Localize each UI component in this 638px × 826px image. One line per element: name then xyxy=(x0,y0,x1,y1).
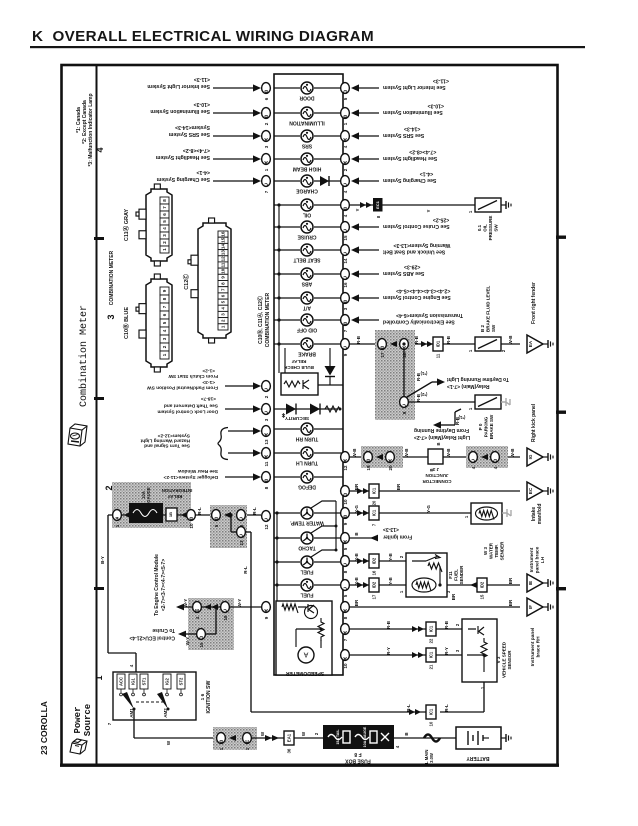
svg-text:Front right fender: Front right fender xyxy=(531,282,537,324)
gauge TURN RH y=429 xyxy=(274,428,300,430)
svg-text:Source: Source xyxy=(83,704,93,736)
svg-text:H: H xyxy=(245,738,249,744)
svg-text:V 3: V 3 xyxy=(496,656,501,663)
svg-text:R-B: R-B xyxy=(444,620,449,629)
row 9C: brake fluid level circuit xyxy=(350,343,475,345)
svg-text:C: C xyxy=(343,227,347,233)
svg-text:WATER TEMP.: WATER TEMP. xyxy=(290,520,324,526)
svg-text:15: 15 xyxy=(199,642,204,648)
svg-text:W-B: W-B xyxy=(404,448,409,458)
gauge lamp SEAT BELT xyxy=(274,249,300,251)
svg-text:B: B xyxy=(214,515,218,521)
svg-text:GAUGE: GAUGE xyxy=(146,487,151,503)
speedometer sub-box xyxy=(276,601,332,675)
water temp sender W3 xyxy=(471,503,502,524)
svg-text:M: M xyxy=(195,607,199,613)
connector pin 5A meter right y=538 xyxy=(341,533,350,544)
svg-text:1: 1 xyxy=(94,675,104,680)
svg-text:16: 16 xyxy=(221,231,226,237)
svg-text:TURN LH: TURN LH xyxy=(296,460,318,466)
row 9B: water temp sender circuit xyxy=(350,512,471,514)
svg-text:W-Y: W-Y xyxy=(237,599,242,608)
connector pin 3B meter right y=298 xyxy=(341,293,350,304)
svg-text:W-Y: W-Y xyxy=(185,637,190,646)
gauge lamp CRUISE xyxy=(274,226,300,228)
svg-text:F11: F11 xyxy=(448,571,453,579)
svg-text:manifold: manifold xyxy=(537,504,543,525)
connector oval 9 on branch xyxy=(400,397,409,408)
reference arrow left: See Headlight System xyxy=(213,158,254,160)
reference arrow right: See Illumination System xyxy=(357,112,379,114)
junction dot lower bus y=562 xyxy=(275,560,278,563)
svg-text:<25-2>: <25-2> xyxy=(433,217,449,223)
svg-text:SW: SW xyxy=(491,324,496,332)
svg-text:To Cruise: To Cruise xyxy=(152,627,175,633)
svg-text:10: 10 xyxy=(429,721,434,726)
connector pin 9B meter right y=513 xyxy=(341,508,350,519)
svg-text:A: A xyxy=(264,159,268,165)
B-Y feed wire from integration relay down xyxy=(107,515,109,653)
reference arrow right: See Charging System xyxy=(357,180,379,182)
connector pin 1B meter right y=113 xyxy=(341,108,350,119)
svg-text:C11Ⓐ GRAY: C11Ⓐ GRAY xyxy=(122,209,130,242)
svg-text:See Cruise Control System: See Cruise Control System xyxy=(383,223,450,229)
reference arrow left: See SRS System xyxy=(213,135,254,137)
junction connector EC1 xyxy=(373,198,383,212)
svg-text:R-L: R-L xyxy=(444,704,449,712)
svg-text:A: A xyxy=(343,159,347,165)
svg-text:BULB CHECK: BULB CHECK xyxy=(283,365,313,370)
gauge FUEL y=562 xyxy=(274,561,300,563)
internal diagonal link from tacho gauge xyxy=(311,526,336,533)
svg-text:12: 12 xyxy=(221,256,226,262)
bulb check relay feed wire from BRAKE row xyxy=(284,348,286,373)
connector pin 10A meter right y=655 xyxy=(341,650,350,661)
svg-text:P 0: P 0 xyxy=(478,423,483,430)
svg-text:HIGH BEAM: HIGH BEAM xyxy=(293,166,322,172)
connector pin 2B meter left y=113 xyxy=(262,108,271,119)
svg-text:IC1: IC1 xyxy=(372,487,377,494)
svg-text:ACC: ACC xyxy=(119,677,124,686)
svg-text:A: A xyxy=(343,457,347,463)
svg-text:11: 11 xyxy=(264,461,269,466)
svg-text:BR: BR xyxy=(354,599,359,606)
svg-text:IF: IF xyxy=(528,605,533,609)
svg-text:<4-1>: <4-1> xyxy=(420,171,434,177)
VSS pin1 wire down to R-L bus xyxy=(483,682,485,712)
bulb check relay box xyxy=(281,373,318,395)
svg-text:15: 15 xyxy=(480,594,485,599)
svg-text:BR: BR xyxy=(508,577,513,584)
svg-text:EC: EC xyxy=(528,487,533,494)
svg-text:R-L: R-L xyxy=(243,566,248,574)
outer diagram border xyxy=(62,65,558,765)
gray stipple block connectors 5/13 xyxy=(210,505,247,548)
svg-text:B-Y: B-Y xyxy=(100,556,105,564)
junction connector IC1 10 xyxy=(426,705,436,719)
svg-text:10: 10 xyxy=(189,523,194,529)
svg-text:See Charging System: See Charging System xyxy=(383,177,437,183)
junction dot lower bus y=538 xyxy=(275,536,278,539)
wire into ignition switch pin 4 xyxy=(108,652,136,654)
junction dot bus y=227 xyxy=(277,225,280,228)
svg-text:C: C xyxy=(223,607,227,613)
svg-text:C: C xyxy=(402,402,406,408)
svg-text:See Illumination System: See Illumination System xyxy=(383,109,443,115)
fuel sender F11 xyxy=(406,553,447,597)
connector pin 8C meter right y=561 xyxy=(341,556,350,567)
ground IE instrument panel brace LH xyxy=(527,574,543,592)
reference arrow right: See ABS System xyxy=(357,273,379,275)
svg-text:17: 17 xyxy=(372,594,377,599)
svg-text:IC1: IC1 xyxy=(429,625,434,632)
svg-text:VEHICLE SPEED: VEHICLE SPEED xyxy=(502,641,507,678)
speedometer transistor Q xyxy=(305,606,318,619)
svg-text:B: B xyxy=(343,320,347,326)
svg-text:<2-4><3-4><4-4><5-4>: <2-4><3-4><4-4><5-4> xyxy=(396,288,450,294)
integration relay (black box) xyxy=(129,503,163,523)
svg-text:BR: BR xyxy=(396,483,401,490)
svg-text:PARKING: PARKING xyxy=(484,416,489,437)
svg-text:C10Ⓑ BLUE: C10Ⓑ BLUE xyxy=(122,307,130,339)
internal diagonal link from fuel gauge xyxy=(311,550,336,557)
svg-text:R-B: R-B xyxy=(446,335,451,344)
svg-text:<4-1>: <4-1> xyxy=(196,169,210,175)
double arrowhead into EC1 xyxy=(360,202,372,208)
svg-text:C: C xyxy=(471,457,475,463)
svg-text:R-B: R-B xyxy=(356,335,361,344)
svg-text:COMBINATION METER: COMBINATION METER xyxy=(109,250,115,305)
svg-text:A/T: A/T xyxy=(303,305,311,311)
charge indicator diode D1 xyxy=(320,176,329,186)
connector oval 1H bottom xyxy=(243,733,252,744)
connector oval 10 after relay xyxy=(187,510,196,521)
svg-text:15: 15 xyxy=(343,235,348,241)
inner right bus of meter lower section xyxy=(335,501,337,550)
section tick marks on right border xyxy=(556,236,566,239)
svg-text:Combination Meter: Combination Meter xyxy=(78,305,90,407)
svg-text:A: A xyxy=(264,431,268,437)
svg-text:SEAT BELT: SEAT BELT xyxy=(293,257,320,263)
svg-text:D: D xyxy=(493,457,497,463)
svg-text:TEMP.: TEMP. xyxy=(494,544,499,557)
svg-text:C10Ⓑ, C11Ⓐ, C12Ⓒ: C10Ⓑ, C11Ⓐ, C12Ⓒ xyxy=(257,296,264,344)
svg-text:From Clutch Start SW: From Clutch Start SW xyxy=(168,373,218,379)
svg-text:B: B xyxy=(189,515,193,521)
svg-text:SECURITY: SECURITY xyxy=(284,415,309,421)
junction connector ID2 17 xyxy=(369,578,379,592)
svg-text:From Park/Neutral Position SW: From Park/Neutral Position SW xyxy=(147,385,218,391)
svg-text:IG2: IG2 xyxy=(165,677,170,684)
ground EC xyxy=(527,482,543,500)
svg-text:OIL: OIL xyxy=(483,224,488,232)
svg-text:B 2: B 2 xyxy=(480,325,485,333)
svg-text:Warning System<13-3>: Warning System<13-3> xyxy=(393,242,450,248)
svg-text:TACHO: TACHO xyxy=(298,545,316,551)
svg-text:3: 3 xyxy=(106,314,116,319)
svg-text:C: C xyxy=(343,274,347,280)
svg-text:To Daytime Running Light: To Daytime Running Light xyxy=(447,376,509,382)
row 10D: ground EC circuit xyxy=(350,490,520,492)
gauge lamp O/D OFF xyxy=(274,319,300,321)
svg-text:ID1: ID1 xyxy=(436,340,441,347)
svg-text:ILLUMINATION: ILLUMINATION xyxy=(289,120,325,126)
svg-text:RELAY: RELAY xyxy=(168,494,183,499)
vehicle speed sensor V3 xyxy=(462,619,497,682)
reference: To Daytime Running Light Relay xyxy=(407,382,432,397)
svg-text:14: 14 xyxy=(343,258,348,264)
svg-text:R-Y: R-Y xyxy=(444,647,449,655)
gauge lamp BRAKE xyxy=(274,343,300,345)
junction dot bus y=205 xyxy=(277,203,280,206)
ignition switch arm AM2 xyxy=(157,692,168,709)
svg-text:C: C xyxy=(239,532,243,538)
connector pin 9A meter left y=607 xyxy=(262,602,271,613)
svg-text:IE: IE xyxy=(528,581,533,585)
connector pin 8A meter right y=607 xyxy=(341,602,350,613)
svg-text:B: B xyxy=(219,738,223,744)
svg-text:10: 10 xyxy=(343,499,348,505)
svg-text:R-L: R-L xyxy=(197,507,202,515)
svg-text:CHARGE: CHARGE xyxy=(296,188,318,194)
svg-text:C: C xyxy=(343,344,347,350)
reference arrow right: See Headlight System xyxy=(357,158,379,160)
svg-text:R-B: R-B xyxy=(386,620,391,629)
svg-text:D: D xyxy=(199,634,203,640)
row 9A to engine control module xyxy=(178,606,261,608)
svg-text:See Theft Deterrent and: See Theft Deterrent and xyxy=(164,403,218,409)
svg-text:See Illumination System: See Illumination System xyxy=(150,108,210,114)
svg-text:IGNITION SW: IGNITION SW xyxy=(206,680,212,713)
connector oval 1E1 left of relay xyxy=(108,514,129,516)
reference: From Clutch Start SW xyxy=(225,385,254,387)
svg-text:See Headlight System: See Headlight System xyxy=(383,155,438,161)
gray stipple block: integration relay xyxy=(112,482,191,528)
section tick marks on divider xyxy=(94,237,104,240)
branch to parking brake: vertical from 18 xyxy=(403,350,405,396)
svg-text:INTEGRATION: INTEGRATION xyxy=(162,488,193,493)
connector oval 5C xyxy=(237,510,246,521)
svg-text:Y-G: Y-G xyxy=(426,505,431,513)
svg-text:SRS: SRS xyxy=(301,143,312,149)
svg-text:A: A xyxy=(343,136,347,142)
svg-text:Defogger System<11-2>: Defogger System<11-2> xyxy=(163,474,218,480)
svg-text:<13-3>: <13-3> xyxy=(383,526,399,532)
svg-text:BR: BR xyxy=(508,599,513,606)
connector pin 7C meter left y=181 xyxy=(262,176,271,187)
svg-text:10: 10 xyxy=(343,663,348,669)
gauge lamp ABS xyxy=(274,273,300,275)
svg-text:FUSE BOX: FUSE BOX xyxy=(345,758,371,764)
svg-text:See SRS System: See SRS System xyxy=(168,131,210,137)
svg-text:IC1: IC1 xyxy=(429,708,434,715)
reference: See Rear Window Defogger System xyxy=(225,476,254,478)
reference: See Theft Deterrent and Door Lock Control System xyxy=(225,408,254,410)
svg-text:K OVERALL ELECTRICAL WIRING D: K OVERALL ELECTRICAL WIRING DIAGRAM xyxy=(32,28,374,45)
svg-text:R-B: R-B xyxy=(416,372,421,381)
bottom power bus wire xyxy=(134,737,218,739)
gauge lamp CHARGE xyxy=(274,180,300,182)
row 8C/5C: fuel sender circuit xyxy=(350,560,406,562)
svg-text:See ABS System: See ABS System xyxy=(383,270,425,276)
svg-text:C12Ⓒ: C12Ⓒ xyxy=(182,274,190,290)
connector pin 5D meter right y=88 xyxy=(341,83,350,94)
gray stipple block connectors 19/20 xyxy=(361,446,403,468)
svg-text:From Igniter: From Igniter xyxy=(383,534,412,540)
junction connector ID2 15 xyxy=(477,578,487,592)
svg-text:FUEL: FUEL xyxy=(300,569,313,575)
svg-text:20: 20 xyxy=(372,500,377,505)
svg-text:DEFOG: DEFOG xyxy=(298,484,316,490)
junction connector ID2 16 xyxy=(369,554,379,568)
svg-text:SENDER: SENDER xyxy=(459,565,464,585)
svg-text:13: 13 xyxy=(264,439,269,445)
svg-text:See Turn Signal and: See Turn Signal and xyxy=(144,443,190,449)
svg-text:See Engine Control System: See Engine Control System xyxy=(383,294,451,300)
gauge lamp OIL xyxy=(274,204,300,206)
svg-text:B: B xyxy=(264,88,268,94)
ground EA front right fender xyxy=(527,335,543,353)
svg-text:ST1: ST1 xyxy=(142,677,147,685)
connector pin 12C meter left y=516 xyxy=(262,511,271,522)
svg-text:Light Relay(Main) <7-2>: Light Relay(Main) <7-2> xyxy=(414,434,470,440)
svg-text:<1-3>: <1-3> xyxy=(202,379,215,385)
svg-text:SENDER: SENDER xyxy=(500,541,505,561)
svg-text:A: A xyxy=(264,136,268,142)
connector pin 15C meter right y=227 xyxy=(341,222,350,233)
speedometer resistor R xyxy=(282,604,298,613)
gauge lamp HIGH BEAM xyxy=(274,158,300,160)
connector C12 pinout xyxy=(198,223,231,338)
svg-text:12: 12 xyxy=(264,524,269,530)
svg-text:BRAKE: BRAKE xyxy=(297,351,315,357)
svg-text:RELAY: RELAY xyxy=(292,359,307,364)
gauge lamp SRS xyxy=(274,135,300,137)
svg-text:11: 11 xyxy=(221,262,226,267)
svg-text:W-Y: W-Y xyxy=(183,599,188,608)
svg-text:12: 12 xyxy=(343,465,348,471)
svg-text:Y: Y xyxy=(355,208,360,211)
row 8A: ground IF circuit xyxy=(350,606,520,608)
speedometer resistor vertical xyxy=(318,618,324,641)
svg-text:17: 17 xyxy=(380,352,385,358)
wire R-B (A2) to parking brake sw xyxy=(409,401,475,403)
svg-text:<11-3>: <11-3> xyxy=(194,76,210,82)
gauge DEFOG y=477 xyxy=(274,476,300,478)
svg-text:W-B: W-B xyxy=(352,448,357,458)
combination meter main box xyxy=(274,74,343,675)
svg-text:A: A xyxy=(343,538,347,544)
svg-text:C: C xyxy=(343,561,347,567)
svg-text:C: C xyxy=(343,250,347,256)
svg-text:W-B: W-B xyxy=(510,448,515,458)
svg-text:Y: Y xyxy=(426,209,431,212)
svg-text:J 3: J 3 xyxy=(432,467,439,472)
svg-text:IG1: IG1 xyxy=(131,677,136,684)
internal diagonal link from water temp gauge xyxy=(311,501,336,508)
reference arrow right: See Unlock and Seat Belt xyxy=(357,249,379,251)
connector pin 16C meter right y=274 xyxy=(341,269,350,280)
connector pin 4C meter right y=181 xyxy=(341,176,350,187)
row 7A: vehicle speed sensor signal xyxy=(350,628,462,630)
connector pin 7A meter right y=629 xyxy=(341,624,350,635)
row 5A: from igniter xyxy=(350,537,378,539)
svg-text:WATER: WATER xyxy=(489,542,494,559)
svg-text:13: 13 xyxy=(221,250,226,256)
gauge WATER TEMP. y=513 xyxy=(274,512,300,514)
svg-text:<11-3>: <11-3> xyxy=(433,78,449,84)
junction dot bus y=274 xyxy=(277,272,280,275)
svg-text:18: 18 xyxy=(223,615,228,621)
gray stipple block connectors 1B/1H xyxy=(213,727,257,750)
power source icon (battery box) xyxy=(70,739,87,754)
connector pin 2C meter left y=386 xyxy=(262,381,271,392)
svg-text:<18-7>: <18-7> xyxy=(201,396,216,402)
connector oval 1B bottom xyxy=(217,733,226,744)
row 10A: vehicle speed sensor signal 2 xyxy=(350,654,462,656)
svg-text:A: A xyxy=(343,629,347,635)
relay output small box 1B xyxy=(163,514,261,516)
svg-text:C: C xyxy=(264,516,268,522)
svg-text:See Interior Light System: See Interior Light System xyxy=(383,84,446,90)
svg-text:Transmission System<6-4>: Transmission System<6-4> xyxy=(396,312,463,318)
svg-text:A: A xyxy=(388,457,392,463)
gauge TACHO y=538 xyxy=(274,537,300,539)
svg-text:<10-3>: <10-3> xyxy=(194,101,210,107)
ignition switch arm AM1 xyxy=(122,692,134,709)
svg-text:0.1: 0.1 xyxy=(477,224,482,231)
svg-text:SPEEDOMETER: SPEEDOMETER xyxy=(285,670,324,676)
svg-text:<1-2>: <1-2> xyxy=(202,368,215,374)
connector pin 10D meter right y=491 xyxy=(341,486,350,497)
inner bus wire lower gauges xyxy=(276,513,278,601)
svg-text:ID2: ID2 xyxy=(480,581,485,588)
svg-text:Door Lock Control System: Door Lock Control System xyxy=(157,409,218,415)
gauge FUEL y=585 xyxy=(274,584,300,586)
svg-text:14: 14 xyxy=(221,243,226,249)
svg-text:D: D xyxy=(343,491,347,497)
svg-text:W 3: W 3 xyxy=(483,547,488,555)
connector pin 8B meter left y=477 xyxy=(262,472,271,483)
svg-text:10A GAUGE: 10A GAUGE xyxy=(363,726,367,747)
junction connector ID1 11 xyxy=(421,341,433,347)
svg-text:See Rear Window: See Rear Window xyxy=(178,468,218,474)
svg-text:Y-B: Y-B xyxy=(388,577,393,585)
svg-text:O/D OFF: O/D OFF xyxy=(297,327,317,333)
svg-text:FUEL: FUEL xyxy=(300,592,313,598)
title underline xyxy=(30,46,585,48)
connector oval 19 xyxy=(364,452,373,463)
svg-text:SENSOR: SENSOR xyxy=(507,650,512,670)
connector oval 17 xyxy=(378,339,387,350)
svg-text:From Daytime Running: From Daytime Running xyxy=(414,427,469,433)
svg-text:20: 20 xyxy=(388,465,393,471)
svg-text:System<14-3>: System<14-3> xyxy=(175,124,210,130)
svg-text:IC1: IC1 xyxy=(429,651,434,658)
row 4B: oil pressure switch circuit xyxy=(350,204,475,206)
svg-text:16: 16 xyxy=(343,282,348,288)
svg-text:JUNCTION: JUNCTION xyxy=(425,473,448,478)
svg-text:*3: Malfunction Indicator Lamp: *3: Malfunction Indicator Lamp xyxy=(88,93,94,166)
junction connector IC1 21 xyxy=(426,648,436,662)
svg-text:See Headlight System: See Headlight System xyxy=(155,154,210,160)
svg-text:Relay(Main) <7-1>: Relay(Main) <7-1> xyxy=(447,383,490,389)
svg-text:B: B xyxy=(366,457,370,463)
svg-text:W-B: W-B xyxy=(446,448,451,458)
svg-text:(*2): (*2) xyxy=(420,392,427,397)
connector pin 9C meter right y=344 xyxy=(341,339,350,350)
connector oval 20 xyxy=(386,452,395,463)
